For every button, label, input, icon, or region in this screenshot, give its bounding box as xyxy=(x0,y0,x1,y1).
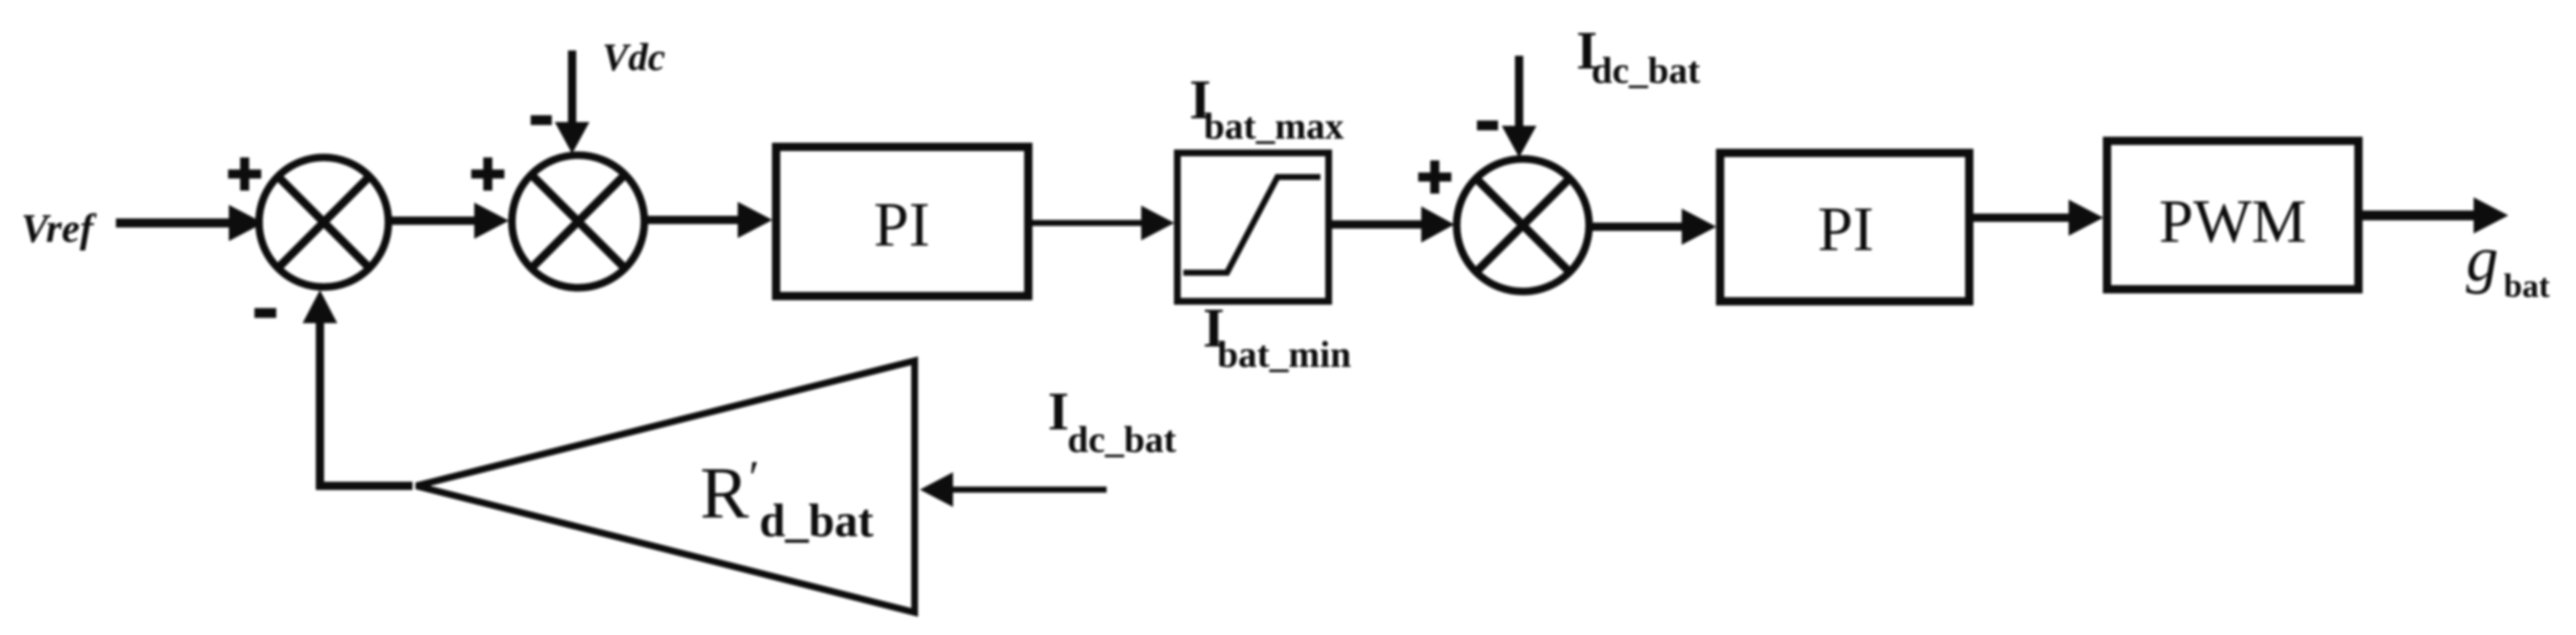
svg-text:bat: bat xyxy=(2504,267,2550,304)
block PI1 xyxy=(776,147,1028,296)
wire I_dc_bat top input xyxy=(1515,56,1524,130)
sign plus S3 xyxy=(1418,160,1451,194)
svg-text:dc_bat: dc_bat xyxy=(1067,418,1177,460)
wire saturation to S3 xyxy=(1332,221,1424,229)
svg-text:PI: PI xyxy=(874,190,930,260)
svg-text:PI: PI xyxy=(1818,194,1874,264)
wire PI1 to saturation xyxy=(1032,220,1144,226)
svg-text:dc_bat: dc_bat xyxy=(1591,49,1701,91)
svg-text:bat_min: bat_min xyxy=(1217,333,1351,375)
block PI2 xyxy=(1720,153,1969,301)
svg-text:Vdc: Vdc xyxy=(602,36,665,79)
wire PWM output xyxy=(2362,211,2477,221)
svg-text:PWM: PWM xyxy=(2159,187,2307,255)
summing junction S2 xyxy=(512,155,644,288)
wire Vref input xyxy=(116,218,235,227)
wire S1 to S2 xyxy=(388,217,477,225)
svg-text:Vref: Vref xyxy=(21,206,97,251)
svg-text:R′d_bat: R′d_bat xyxy=(700,450,874,547)
svg-text:I: I xyxy=(1048,381,1069,441)
wire S3 to PI2 xyxy=(1589,223,1685,231)
block saturation limiter xyxy=(1177,153,1329,301)
sign plus S2 xyxy=(471,157,504,191)
sign minus S1 xyxy=(254,308,276,318)
svg-text:bat_max: bat_max xyxy=(1204,105,1344,147)
block PWM xyxy=(2107,141,2358,289)
sign minus S3 xyxy=(1477,121,1498,130)
sign plus S1 xyxy=(228,157,261,191)
summing junction S1 xyxy=(259,157,388,287)
gain block R'_d_bat triangle xyxy=(416,361,915,612)
sign minus S2 xyxy=(531,115,552,125)
svg-text:g: g xyxy=(2466,222,2498,295)
wire S2 to PI1 xyxy=(644,216,741,224)
wire PI2 to PWM xyxy=(1973,214,2072,222)
wire feedback vertical to S1 xyxy=(316,320,324,490)
summing junction S3 xyxy=(1457,159,1589,292)
wire feedback horizontal xyxy=(316,482,413,490)
wire Vdc input xyxy=(568,50,577,127)
wire I_dc_bat feedback input xyxy=(950,487,1107,493)
